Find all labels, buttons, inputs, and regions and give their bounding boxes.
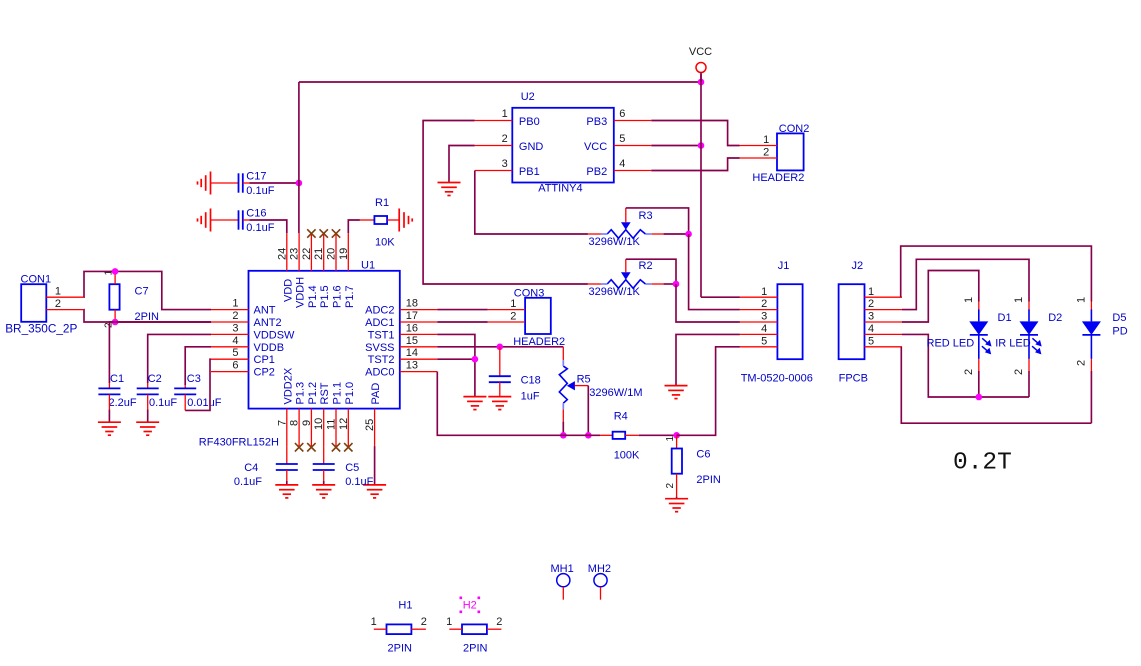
U1 pin 20 P1.6 stub <box>335 233 337 270</box>
U2 pin 5 VCC stub <box>614 145 652 147</box>
svg-text:1: 1 <box>868 286 874 298</box>
H2 pin 2 stub <box>487 628 502 630</box>
wire C6 to ground <box>676 497 678 499</box>
svg-text:0.1uF: 0.1uF <box>246 185 274 197</box>
U1 pin 17 ADC1 stub <box>400 321 438 323</box>
svg-text:2: 2 <box>761 298 767 310</box>
connector J1 body <box>777 284 802 359</box>
svg-text:PB0: PB0 <box>519 116 540 128</box>
wire R2 right to junction <box>664 283 676 285</box>
svg-text:5: 5 <box>619 133 625 145</box>
wire U2 GND to ground <box>449 146 475 183</box>
node junction R5 wiper <box>585 432 592 439</box>
svg-text:2: 2 <box>665 483 676 489</box>
ground under J1 pin4 net <box>665 386 688 399</box>
node junction C7 pin1 <box>112 268 119 275</box>
U2 pin 3 PB1 stub <box>475 170 513 172</box>
svg-text:1: 1 <box>763 134 769 146</box>
no-connect X on U1 pin 12 <box>344 443 352 451</box>
wire U1 TST1 down to ground <box>437 334 475 396</box>
wire J1 pin4 to ground <box>676 334 740 385</box>
D2 LED arrows <box>1032 338 1042 354</box>
no-connect X on U1 pin 11 <box>332 443 340 451</box>
svg-text:13: 13 <box>406 360 418 372</box>
wire VCC to J1 pin1 <box>701 296 740 298</box>
node junction U2 VCC <box>698 142 705 149</box>
svg-text:CP1: CP1 <box>254 354 275 366</box>
U1 pin 18 ADC2 stub <box>400 309 438 311</box>
svg-text:C2: C2 <box>148 373 162 385</box>
U1 pin 5 CP1 stub <box>211 358 249 360</box>
svg-text:RF430FRL152H: RF430FRL152H <box>199 437 279 449</box>
C17 right stub <box>243 182 250 184</box>
wire U1 SVSS to R5 top <box>437 346 563 348</box>
U1 pin 7 VDD2X stub <box>286 409 288 447</box>
svg-text:8: 8 <box>289 420 301 426</box>
svg-text:BR_350C_2P: BR_350C_2P <box>5 322 77 336</box>
svg-text:19: 19 <box>338 248 350 260</box>
capacitor C4 <box>276 464 298 470</box>
svg-text:22: 22 <box>301 248 313 260</box>
connector CON2 body <box>777 133 804 170</box>
svg-text:PAD: PAD <box>370 383 382 405</box>
C3 bottom stub <box>184 394 186 410</box>
wire U2 PB0 to R2 left <box>423 121 588 285</box>
svg-text:U2: U2 <box>521 91 535 103</box>
svg-text:1: 1 <box>1013 297 1025 303</box>
wire J2 pin3 to D1 anode rail <box>902 271 979 323</box>
svg-text:P1.6: P1.6 <box>332 285 344 308</box>
D5 cathode stub <box>1090 359 1092 371</box>
wire U1 VDDB to C2 <box>148 334 211 383</box>
C16 right stub <box>243 219 250 221</box>
svg-text:ADC0: ADC0 <box>365 367 394 379</box>
capacitor C2 <box>137 388 159 394</box>
U1 pin 25 PAD stub <box>374 409 376 447</box>
svg-text:0.1uF: 0.1uF <box>234 476 262 488</box>
svg-text:5: 5 <box>868 335 874 347</box>
U1 pin 2 ANT2 stub <box>211 321 249 323</box>
svg-text:VDDSW: VDDSW <box>254 329 296 341</box>
wire U1 PAD to ground <box>374 446 376 485</box>
wire R4 to C6/J1pin5 junction <box>639 434 677 436</box>
node junction R3 output <box>685 231 692 238</box>
node junction top rail at VCC <box>698 79 705 86</box>
ground under TST net <box>463 397 486 410</box>
svg-text:R1: R1 <box>375 197 389 209</box>
svg-text:1: 1 <box>446 616 452 628</box>
svg-text:0.1uF: 0.1uF <box>246 222 274 234</box>
capacitor C7 body (2PIN rectangle) <box>109 284 119 310</box>
ground under C1 <box>98 422 121 435</box>
capacitor C3 <box>174 388 196 394</box>
R5 bottom stub <box>562 409 564 421</box>
svg-text:D1: D1 <box>998 312 1012 324</box>
R4 right stub <box>625 434 639 436</box>
svg-text:GND: GND <box>519 141 544 153</box>
U1 pin 4 VDDB stub <box>211 346 249 348</box>
svg-text:ANT: ANT <box>254 305 276 317</box>
svg-text:ADC2: ADC2 <box>365 305 394 317</box>
connector CON3 body <box>525 298 551 334</box>
node junction TST1/TST2 <box>472 356 479 363</box>
svg-text:D2: D2 <box>1048 312 1062 324</box>
svg-text:3: 3 <box>232 322 238 334</box>
svg-text:0.01uF: 0.01uF <box>187 397 222 409</box>
svg-text:IR LED: IR LED <box>995 337 1031 349</box>
svg-text:FPCB: FPCB <box>839 373 868 385</box>
wire U2 VCC pin to VCC net <box>651 145 701 147</box>
wire R3 right to junction <box>664 233 689 235</box>
capacitor C3 top stub <box>184 385 186 388</box>
svg-text:P1.0: P1.0 <box>344 382 356 405</box>
svg-text:2PIN: 2PIN <box>463 643 488 655</box>
svg-text:C6: C6 <box>696 449 710 461</box>
capacitor C18 <box>489 376 511 382</box>
U1 pin 10 RST stub <box>323 409 325 447</box>
svg-text:20: 20 <box>326 248 338 260</box>
U1 pin 11 P1.1 stub <box>335 409 337 447</box>
svg-text:2: 2 <box>502 133 508 145</box>
node junction VDDH/C17 <box>296 180 303 187</box>
capacitor C1 top stub <box>108 383 110 388</box>
svg-text:HEADER2: HEADER2 <box>752 172 804 184</box>
svg-text:P1.1: P1.1 <box>332 382 344 405</box>
svg-text:6: 6 <box>619 108 625 120</box>
H1 pin 1 stub <box>374 628 387 630</box>
IC U2 ATTINY4 body <box>512 108 614 183</box>
J1 pin 2 stub <box>740 309 778 311</box>
wire J1 pin5 to ADC0 junction <box>677 347 740 436</box>
C6 pin1 stub <box>676 435 678 448</box>
svg-text:2: 2 <box>1075 360 1087 366</box>
svg-text:4: 4 <box>232 335 238 347</box>
CON2 pin 1 stub <box>740 145 778 147</box>
C1 bottom stub <box>108 394 110 409</box>
svg-text:12: 12 <box>338 418 350 430</box>
wire U2 PB2 to CON2 pin2 <box>651 158 739 171</box>
J2 pin 1 stub <box>865 296 903 298</box>
ground under C5 <box>312 485 335 498</box>
svg-text:24: 24 <box>276 248 288 260</box>
C17 left stub <box>211 182 239 184</box>
svg-text:23: 23 <box>289 248 301 260</box>
D2 cathode stub <box>1028 359 1030 371</box>
wire R5 bottom to ADC0 net <box>562 422 564 436</box>
svg-text:2: 2 <box>1013 369 1025 375</box>
wire top rail VDDH to VCC <box>299 81 701 83</box>
svg-text:18: 18 <box>406 298 418 310</box>
svg-text:2: 2 <box>55 298 61 310</box>
svg-text:3: 3 <box>761 311 767 323</box>
IC U1 RF430FRL152H body <box>249 271 400 409</box>
svg-text:VCC: VCC <box>584 141 607 153</box>
svg-text:PD: PD <box>1112 326 1127 338</box>
U1 pin 6 CP2 stub <box>211 371 249 373</box>
capacitor C16 <box>239 210 243 229</box>
wire R5 wiper down to ADC0 net <box>587 386 589 436</box>
svg-text:100K: 100K <box>614 450 640 462</box>
capacitor C1 <box>98 388 120 394</box>
svg-text:P1.5: P1.5 <box>319 285 331 308</box>
node junction R5 bottom <box>560 432 567 439</box>
wire D1 cathode down <box>978 371 980 397</box>
R1 right stub <box>387 219 399 221</box>
svg-text:TST2: TST2 <box>368 354 395 366</box>
svg-text:10: 10 <box>313 418 325 430</box>
svg-text:MH2: MH2 <box>588 563 611 575</box>
svg-text:TST1: TST1 <box>368 329 395 341</box>
wire U1 CP1 to C3 top <box>185 347 211 385</box>
svg-text:ATTINY4: ATTINY4 <box>538 183 582 195</box>
svg-text:15: 15 <box>406 335 418 347</box>
J1 pin 5 stub <box>740 346 778 348</box>
svg-text:3296W/1K: 3296W/1K <box>589 236 641 248</box>
wire C16 to U1 VDD pin 24 <box>249 220 286 233</box>
wire U1 VDDSW to C1 <box>109 322 211 383</box>
U2 pin 4 PB2 stub <box>614 170 652 172</box>
svg-text:0.1uF: 0.1uF <box>345 476 373 488</box>
no-connect X on U1 pin 22 <box>307 229 315 237</box>
potentiometer R3 3296W/1K <box>601 222 652 238</box>
CON1 pin 2 stub <box>46 309 84 311</box>
wire J2 pin5 to D5 cathode rail <box>901 347 1091 423</box>
node junction SVSS/C18 <box>497 344 504 351</box>
svg-text:14: 14 <box>406 347 418 359</box>
svg-text:C5: C5 <box>345 462 359 474</box>
J2 pin 3 stub <box>865 321 903 323</box>
no-connect X on U1 pin 20 <box>332 229 340 237</box>
mounting hole MH2 <box>594 574 607 587</box>
wire U1 CP2 to C3 bottom <box>185 359 211 410</box>
potentiometer R5 3296W/1M <box>559 360 575 409</box>
wire J2 pin2 to D2 anode rail <box>902 259 1029 309</box>
svg-text:1: 1 <box>371 616 377 628</box>
node junction R4 output <box>673 432 680 439</box>
wire J2 pin1 to D5 anode rail <box>901 246 1092 301</box>
capacitor C6 body (2PIN rectangle) <box>672 449 682 474</box>
svg-text:6: 6 <box>232 360 238 372</box>
svg-text:VDDH: VDDH <box>295 277 307 308</box>
ground left of C16 <box>198 209 211 232</box>
capacitor C17 <box>239 173 243 192</box>
U1 pin 16 TST1 stub <box>400 333 438 335</box>
svg-text:VCC: VCC <box>689 46 712 58</box>
svg-text:1: 1 <box>502 108 508 120</box>
svg-text:1: 1 <box>232 298 238 310</box>
wire R3 output to J1 pin2 <box>689 234 740 310</box>
svg-text:10K: 10K <box>375 237 395 249</box>
R1 left stub <box>360 219 375 221</box>
J2 pin 2 stub <box>865 309 903 311</box>
D1 anode stub <box>978 302 980 310</box>
svg-text:CON2: CON2 <box>779 123 810 135</box>
ground under C4 <box>275 485 298 498</box>
svg-text:VDD2X: VDD2X <box>282 367 294 404</box>
wire J2 pin4 to LED cathode rail <box>902 334 1029 397</box>
svg-text:1: 1 <box>665 436 676 442</box>
svg-text:C3: C3 <box>187 373 201 385</box>
svg-text:CON3: CON3 <box>514 288 545 300</box>
U2 pin 2 GND stub <box>475 145 513 147</box>
resistor R1 body <box>374 216 387 224</box>
MH2 stub <box>600 587 602 600</box>
wire C17 to VDDH node <box>249 182 299 184</box>
U1 pin 8 P1.3 stub <box>298 409 300 447</box>
svg-text:2: 2 <box>421 616 427 628</box>
C7 pin 2 stub <box>114 310 116 322</box>
R2 right stub <box>652 283 664 285</box>
svg-text:VDDB: VDDB <box>254 342 285 354</box>
U1 pin 15 SVSS stub <box>400 346 438 348</box>
svg-text:2: 2 <box>868 298 874 310</box>
ground right of R1 <box>399 209 412 232</box>
CON2 pin 2 stub <box>740 157 778 159</box>
wire U1 ADC0 down and right <box>437 372 600 436</box>
svg-text:P1.3: P1.3 <box>295 382 307 405</box>
svg-text:1: 1 <box>761 286 767 298</box>
svg-text:2: 2 <box>496 616 502 628</box>
ground under C6 <box>665 499 688 512</box>
svg-text:P1.7: P1.7 <box>344 285 356 308</box>
D1 cathode stub <box>978 359 980 371</box>
svg-text:MH1: MH1 <box>551 563 574 575</box>
R3 wiper red lead <box>625 208 627 223</box>
wire U2 PB3 to CON2 pin1 <box>651 121 739 146</box>
R2 left stub <box>588 283 601 285</box>
svg-text:SVSS: SVSS <box>365 342 394 354</box>
wire U2 PB1 to R3 left <box>475 171 588 235</box>
C16 left stub <box>211 219 239 221</box>
svg-text:3296W/1K: 3296W/1K <box>589 286 641 298</box>
wire D5 cathode down <box>1090 371 1092 423</box>
svg-text:C18: C18 <box>521 375 541 387</box>
H2 selection marks <box>460 597 481 614</box>
svg-text:CON1: CON1 <box>21 274 52 286</box>
svg-text:2: 2 <box>763 146 769 158</box>
no-connect X on U1 pin 9 <box>307 443 315 451</box>
component H2 body (2PIN) <box>462 624 487 634</box>
svg-text:1: 1 <box>963 297 975 303</box>
svg-text:D5: D5 <box>1112 312 1126 324</box>
U1 pin 1 ANT stub <box>211 309 249 311</box>
svg-text:P1.4: P1.4 <box>307 285 319 308</box>
connector CON1 body <box>21 284 46 322</box>
R3 left stub <box>588 233 601 235</box>
svg-text:17: 17 <box>406 310 418 322</box>
wire C2 to ground <box>147 409 149 422</box>
J1 pin 1 stub <box>740 296 778 298</box>
J1 pin 4 stub <box>740 333 778 335</box>
H1 pin 2 stub <box>411 628 426 630</box>
svg-text:0.1uF: 0.1uF <box>149 397 177 409</box>
svg-text:RED LED: RED LED <box>927 337 975 349</box>
svg-text:5: 5 <box>232 347 238 359</box>
svg-text:H2: H2 <box>463 600 477 612</box>
R5 wiper red lead <box>575 385 589 387</box>
wire CON1 pin1 up to top node <box>84 271 211 309</box>
svg-text:2: 2 <box>232 310 238 322</box>
svg-text:1: 1 <box>1075 297 1087 303</box>
node junction R2 output <box>673 281 680 288</box>
wire R3 wiper loop <box>626 208 689 234</box>
svg-text:C7: C7 <box>135 286 149 298</box>
wire U1 VDD2X to C4 <box>286 446 288 464</box>
no-connect X on U1 pin 8 <box>295 443 303 451</box>
svg-text:4: 4 <box>868 323 874 335</box>
U1 pin 23 VDDH stub <box>298 233 300 270</box>
wire U1 P1.7 to R1 <box>348 220 360 233</box>
svg-text:C16: C16 <box>246 208 266 220</box>
svg-text:R5: R5 <box>577 374 591 386</box>
svg-text:3: 3 <box>868 311 874 323</box>
C18 bottom stub <box>499 382 501 396</box>
J1 pin 3 stub <box>740 321 778 323</box>
R3 right stub <box>652 233 664 235</box>
U1 pin 19 P1.7 stub <box>347 233 349 270</box>
CON1 pin 1 stub <box>46 296 84 298</box>
svg-text:PB2: PB2 <box>586 166 607 178</box>
C6 pin2 stub <box>676 474 678 497</box>
R2 wiper red lead <box>625 259 627 273</box>
ground under C2 <box>136 422 159 435</box>
svg-text:2: 2 <box>510 310 516 322</box>
wire C5 to ground <box>323 481 325 485</box>
wire C1 to ground <box>108 409 110 422</box>
capacitor C5 <box>313 464 335 470</box>
wire D2 cathode down <box>1028 371 1030 397</box>
svg-text:11: 11 <box>326 419 338 430</box>
svg-text:J1: J1 <box>778 260 790 272</box>
C5 bottom stub <box>323 470 325 481</box>
C7 pin 1 stub <box>114 271 116 284</box>
C4 bottom stub <box>286 470 288 481</box>
svg-text:2.2uF: 2.2uF <box>109 397 137 409</box>
capacitor C2 top stub <box>147 383 149 388</box>
svg-text:J2: J2 <box>852 260 864 272</box>
svg-text:R2: R2 <box>639 260 653 272</box>
MH1 stub <box>562 587 564 600</box>
diode D1 RED LED <box>969 309 988 359</box>
svg-text:5: 5 <box>761 335 767 347</box>
svg-text:4: 4 <box>619 158 625 170</box>
svg-text:ANT2: ANT2 <box>254 317 282 329</box>
node junction D1 cathode <box>976 394 983 401</box>
svg-text:1uF: 1uF <box>521 391 540 403</box>
resistor R4 body <box>613 432 626 439</box>
no-connect X on U1 pin 21 <box>320 229 328 237</box>
svg-text:21: 21 <box>313 248 325 260</box>
svg-text:R3: R3 <box>639 210 653 222</box>
U1 pin 3 VDDSW stub <box>211 333 249 335</box>
H2 pin 1 stub <box>449 628 462 630</box>
diode D2 IR LED <box>1020 309 1039 359</box>
svg-text:PB3: PB3 <box>586 116 607 128</box>
svg-text:VDD: VDD <box>282 279 294 302</box>
J2 pin 4 stub <box>865 333 903 335</box>
ground left of C17 <box>198 172 211 195</box>
ground under U2 GND <box>438 183 461 196</box>
wire VCC symbol down <box>700 73 702 83</box>
svg-text:16: 16 <box>406 322 418 334</box>
component H1 body (2PIN) <box>387 624 412 634</box>
U1 pin 24 VDD stub <box>286 233 288 270</box>
U1 pin 14 TST2 stub <box>400 358 438 360</box>
wire VCC vertical <box>700 74 702 297</box>
wire R2 wiper loop <box>626 259 676 284</box>
svg-text:3296W/1M: 3296W/1M <box>589 387 642 399</box>
svg-text:1: 1 <box>510 298 516 310</box>
